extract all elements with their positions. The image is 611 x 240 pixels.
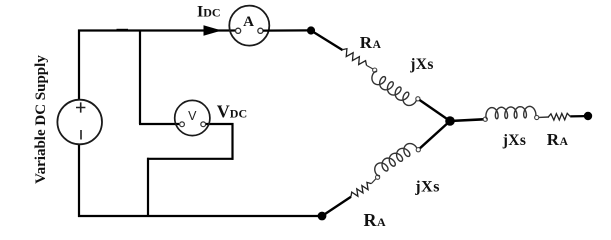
wire left vertical supply bottom xyxy=(78,144,80,217)
inductor jXS bottom coil xyxy=(375,144,417,176)
svg-text:V: V xyxy=(188,109,197,123)
wire voltmeter left horizontal xyxy=(139,123,179,125)
wire ammeter to node J1 xyxy=(263,29,309,31)
wire vertical mid return down xyxy=(147,158,149,216)
resistor RA top zigzag xyxy=(342,49,366,66)
svg-text:IDC: IDC xyxy=(197,4,221,21)
svg-text:VDC: VDC xyxy=(217,101,247,121)
svg-text:RA: RA xyxy=(364,210,387,230)
terminal circle bottom coil start xyxy=(376,175,380,179)
svg-text:RA: RA xyxy=(360,33,382,52)
resistor RA right zigzag xyxy=(548,113,570,120)
DC supply plus sign xyxy=(76,102,85,112)
voltmeter terminal left xyxy=(180,122,185,127)
terminal circle right coil start xyxy=(483,117,487,121)
svg-text:RA: RA xyxy=(547,130,569,149)
DC supply minus sign xyxy=(80,130,82,140)
wire joint tick xyxy=(117,29,129,31)
wire left vertical supply top xyxy=(78,30,80,101)
wire link resistor to coil top xyxy=(367,65,374,69)
inductor jXS right coil xyxy=(486,106,536,119)
wire horizontal mid return xyxy=(147,158,234,160)
wire voltmeter right horizontal xyxy=(205,123,234,125)
center star node xyxy=(445,116,455,126)
terminal circle right coil end xyxy=(535,115,539,119)
wire vertical voltmeter right down xyxy=(231,123,233,160)
junction node J1 xyxy=(307,26,315,34)
voltmeter U2 circle xyxy=(175,100,210,135)
ammeter U1 circle xyxy=(229,6,269,46)
svg-text:jXs: jXs xyxy=(502,132,527,149)
wire J1 to resistor RA top xyxy=(311,31,343,51)
inductor jXS top coil xyxy=(372,71,417,105)
wire J2 to resistor RA bottom xyxy=(322,197,351,216)
svg-text:jXs: jXs xyxy=(409,56,434,73)
junction node J2 xyxy=(318,212,327,221)
wire top horizontal from supply to ammeter xyxy=(78,29,236,31)
output terminal dot xyxy=(584,112,592,120)
ammeter terminal left xyxy=(236,28,241,33)
wire resistor to terminal right xyxy=(570,115,585,118)
wire coil to resistor right xyxy=(539,116,549,118)
wire link resistor to coil bottom xyxy=(371,179,376,184)
svg-text:jXs: jXs xyxy=(414,178,440,195)
wire bottom horizontal xyxy=(78,215,322,217)
terminal circle top coil end xyxy=(416,97,420,101)
terminal circle bottom coil end xyxy=(416,148,420,152)
wire coil to center node bottom xyxy=(420,121,450,148)
ammeter terminal right xyxy=(258,28,263,33)
wire center node to right coil xyxy=(450,119,484,121)
resistor RA bottom zigzag xyxy=(351,182,371,196)
svg-text:A: A xyxy=(243,14,254,30)
svg-text:Variable DC Supply: Variable DC Supply xyxy=(33,55,49,184)
terminal circle top coil start xyxy=(373,68,377,72)
wire vertical to voltmeter left xyxy=(139,31,141,125)
DC supply source circle xyxy=(57,100,102,145)
voltmeter terminal right xyxy=(201,122,206,127)
wire coil to center node top xyxy=(420,100,450,121)
arrow current direction IDC xyxy=(204,25,222,35)
